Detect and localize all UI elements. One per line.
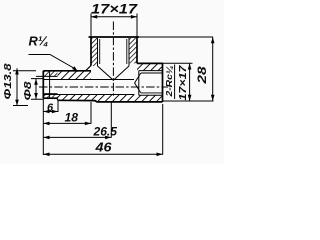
- dim 17x17 top arrows: [91, 15, 137, 19]
- svg-text:17×17: 17×17: [91, 0, 138, 16]
- hatch left top wall band: [58, 66, 92, 80]
- vertical center line branch: [112, 22, 114, 98]
- dim phi13.8 line: [16, 68, 18, 106]
- dim 18 arrows: [43, 122, 91, 126]
- dim phi13.8 ticks: [13, 71, 36, 106]
- svg-text:Φ8: Φ8: [23, 81, 34, 101]
- right thread crest bottom: [139, 94, 163, 96]
- svg-text:17×17: 17×17: [177, 64, 189, 100]
- dim 26.5 extension: [110, 102, 112, 138]
- dim 26.5 line: [43, 136, 111, 138]
- left extension line: [42, 99, 44, 156]
- svg-text:2-Rc¼: 2-Rc¼: [164, 66, 174, 98]
- dim 17x17 top extension right: [136, 14, 138, 38]
- step at nose: [57, 98, 59, 100]
- branch left wall: [90, 37, 92, 66]
- svg-text:46: 46: [94, 141, 112, 155]
- dim 46 line: [43, 153, 162, 155]
- dim 18 line: [43, 122, 91, 124]
- barrel bottom edge: [58, 100, 163, 102]
- dim 28 line: [212, 37, 214, 101]
- nose thread root bottom: [43, 93, 57, 95]
- branch right wall: [136, 37, 138, 63]
- leader arrow: [72, 66, 79, 73]
- nose thread root top: [36, 75, 58, 77]
- branch thread root left: [99, 39, 101, 64]
- svg-text:R¼: R¼: [29, 34, 49, 49]
- nose thread vanish line: [49, 71, 51, 98]
- svg-text:26.5: 26.5: [92, 124, 117, 138]
- hatch nose thread band bottom: [43, 94, 57, 99]
- dim phi8 ticks: [31, 79, 43, 100]
- right thread root top: [141, 72, 163, 74]
- dim 17x17 top extension left: [90, 14, 92, 38]
- branch left flare: [85, 66, 91, 72]
- branch thread root right: [126, 39, 128, 64]
- right thread crest top: [139, 70, 163, 72]
- dim phi13.8 arrows: [15, 68, 19, 106]
- svg-text:18: 18: [65, 110, 79, 124]
- bore line bottom: [43, 94, 134, 96]
- dim 18 extension: [90, 102, 92, 124]
- right thread end line: [138, 71, 140, 96]
- dim 17x17 top line: [91, 16, 137, 18]
- hatch bottom wall band under branch: [91, 94, 137, 102]
- dim phi8 line: [35, 79, 37, 100]
- right bore cone: [135, 73, 141, 93]
- 2-Rc underline: [174, 65, 176, 100]
- hatch branch right wall: [129, 38, 137, 63]
- hatch right bottom wall band: [137, 95, 163, 102]
- horizontal center line: [39, 86, 168, 88]
- nose bottom edge: [43, 97, 57, 99]
- branch inner thread left: [97, 38, 99, 66]
- dim 17x17 right line: [189, 63, 191, 101]
- extension line y63 right: [163, 62, 193, 64]
- bore line top: [43, 79, 134, 81]
- dim 17x17 right arrows: [188, 63, 192, 101]
- dim 28 arrows: [211, 37, 215, 101]
- leader R1/4: [29, 55, 79, 72]
- extension line y37 right: [139, 36, 213, 38]
- branch inner thread right: [128, 38, 130, 66]
- hatch nose thread band top: [43, 71, 57, 77]
- right end face: [162, 63, 164, 102]
- hatch left bottom wall band: [58, 94, 92, 100]
- right top edge: [137, 62, 163, 64]
- hatch branch left wall: [91, 38, 98, 66]
- dim 46 arrows: [43, 153, 162, 157]
- dim 6 extension: [57, 100, 59, 112]
- right thread root bottom: [141, 92, 163, 94]
- dim phi8 arrows: [34, 79, 38, 100]
- dim 46 extension: [162, 104, 164, 155]
- dim 6 line: [43, 111, 58, 113]
- hatch right top wall band: [137, 63, 163, 70]
- svg-text:28: 28: [197, 66, 209, 85]
- branch top face: [89, 36, 140, 38]
- dim 26.5 arrows: [43, 136, 111, 140]
- svg-text:Φ13.8: Φ13.8: [3, 63, 14, 100]
- nose top edge + left barrel top edge: [43, 70, 91, 72]
- svg-text:6: 6: [47, 102, 54, 114]
- extension line bottom right: [163, 100, 214, 102]
- dim 6 arrows: [43, 110, 58, 114]
- branch bore cone: [98, 66, 130, 80]
- left end face: [42, 71, 44, 99]
